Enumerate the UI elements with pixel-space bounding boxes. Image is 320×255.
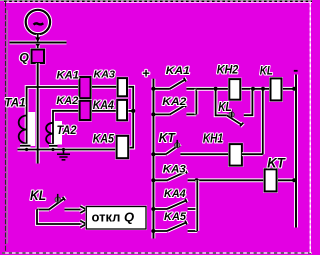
busbar — [10, 41, 67, 45]
actuator mark on KL trip contact — [55, 194, 60, 202]
svg-text:KA3: KA3 — [163, 163, 186, 175]
wire KA3 row to KT coil — [197, 178, 265, 182]
arrow to otkl Q upper — [80, 206, 86, 213]
svg-text:KA4: KA4 — [164, 188, 186, 200]
selection marquee bottom — [2, 252, 312, 254]
wire KL coil to negative bus — [282, 87, 297, 91]
contact KA4 — [153, 199, 197, 209]
gray table border line left — [6, 10, 8, 244]
svg-text:KA2: KA2 — [162, 96, 187, 108]
generator G circle — [26, 10, 50, 34]
selection marquee left — [5, 2, 7, 253]
svg-text:KA5: KA5 — [93, 132, 115, 145]
svg-text:KA3: KA3 — [94, 69, 116, 80]
relay coil KA1 — [79, 77, 90, 98]
svg-text:KA5: KA5 — [164, 211, 187, 223]
wire KA4 KA5 join vertical — [195, 180, 199, 231]
relay coil KA5 — [117, 136, 129, 158]
relay coil KA4 — [117, 100, 127, 120]
relay coil KT — [265, 169, 277, 191]
wire KA1-KA3 — [91, 85, 118, 89]
negative bus — [294, 75, 298, 228]
junction KL branch right — [251, 87, 255, 91]
junction KA4 right ink — [131, 109, 135, 113]
junction bus KA2 — [151, 112, 155, 116]
arrow to otkl Q lower — [80, 221, 86, 228]
svg-text:+: + — [142, 66, 150, 81]
svg-text:KL: KL — [30, 187, 46, 203]
contact KL parallel slash — [227, 115, 244, 126]
svg-text:Q: Q — [19, 51, 29, 65]
circuit breaker Q box — [32, 50, 45, 64]
svg-text:KA1: KA1 — [166, 65, 190, 77]
actuator mark on KT contact — [175, 140, 180, 148]
current transformer TA2 winding arcs — [46, 123, 53, 145]
svg-text:TA2: TA2 — [57, 125, 78, 137]
junction bus KA5 — [151, 229, 155, 233]
junction KL branch left — [214, 87, 218, 91]
relay coil KL — [271, 78, 282, 100]
contact KL trip — [37, 197, 80, 210]
contact KA3 — [153, 170, 196, 181]
relay coil KH1 — [230, 144, 242, 166]
busbar ink — [10, 42, 67, 44]
wire generator lead — [36, 35, 40, 50]
wire TA2 secondary top + winding line — [53, 111, 79, 150]
junction bus KA4 — [151, 207, 155, 211]
wire KL branch left — [216, 89, 227, 116]
wire KA2-KA4 — [91, 109, 118, 113]
selection marquee top — [0, 1, 312, 3]
positive bus — [151, 79, 155, 239]
wire KL trip lower — [37, 210, 80, 225]
svg-text:TA1: TA1 — [5, 98, 26, 110]
junction arrow at busbar — [35, 37, 40, 47]
junction TA1 return — [25, 148, 28, 151]
selection marquee right — [309, 2, 311, 253]
svg-text:KA1: KA1 — [57, 70, 80, 82]
action box otkl Q — [86, 207, 146, 230]
actuator mark on KL parallel contact — [229, 109, 234, 117]
junction KA3 row — [195, 178, 199, 182]
junction bus KT — [151, 152, 155, 156]
wire KA3 right vertical — [127, 87, 133, 148]
contact KA1 — [153, 78, 196, 89]
junction TA2 return — [51, 148, 54, 151]
positive bus ink — [152, 79, 154, 239]
current transformer TA1 winding arcs — [19, 116, 27, 144]
TA2 white area — [54, 121, 62, 145]
ground — [57, 150, 70, 160]
wire KH1 riser — [242, 89, 263, 154]
TA1 white area — [28, 112, 36, 146]
junction KA4 right — [131, 109, 135, 113]
wire KA4 right — [127, 109, 133, 113]
wire KT coil to negative bus — [277, 178, 296, 182]
wire TA2 bottom tick — [49, 144, 58, 148]
relay coil KH2 — [229, 79, 240, 100]
junction bus KA1 — [151, 87, 155, 91]
junction ground stub — [62, 148, 65, 151]
minus label — [294, 70, 298, 72]
relay coil KA3 — [118, 78, 127, 96]
wire KL branch right — [244, 89, 253, 115]
wire node A to KH2 — [197, 87, 230, 91]
contact KA2 — [153, 104, 196, 115]
wire KH2 to KL coil — [240, 87, 270, 91]
junction KL negative bus — [292, 87, 296, 91]
negative bus ink — [295, 75, 297, 228]
svg-text:KT: KT — [267, 155, 286, 171]
wire Q feeder line — [36, 63, 40, 164]
wire TA1 bottom tick — [20, 144, 31, 148]
svg-text:KA4: KA4 — [93, 99, 115, 112]
svg-text:KA2: KA2 — [56, 95, 78, 107]
svg-text:KH2: KH2 — [217, 62, 239, 76]
svg-text:KL: KL — [218, 100, 232, 114]
svg-text:KT: KT — [159, 131, 176, 145]
relay coil KA2 — [80, 101, 91, 120]
contact KA5 — [153, 221, 197, 231]
wire current return — [18, 148, 117, 152]
wire TA1 secondary top + winding line — [27, 87, 80, 150]
wire KA1-KA2 contacts join — [194, 89, 198, 115]
junction KH1 riser top — [261, 87, 265, 91]
svg-text:KL: KL — [260, 63, 273, 77]
wire Q feeder line ink — [37, 63, 39, 164]
svg-text:KH1: KH1 — [203, 132, 223, 146]
junction bus KA3 — [151, 178, 155, 182]
svg-text:откл Q: откл Q — [92, 209, 135, 224]
contact KT — [151, 143, 229, 154]
junction KT negative bus — [292, 178, 296, 182]
